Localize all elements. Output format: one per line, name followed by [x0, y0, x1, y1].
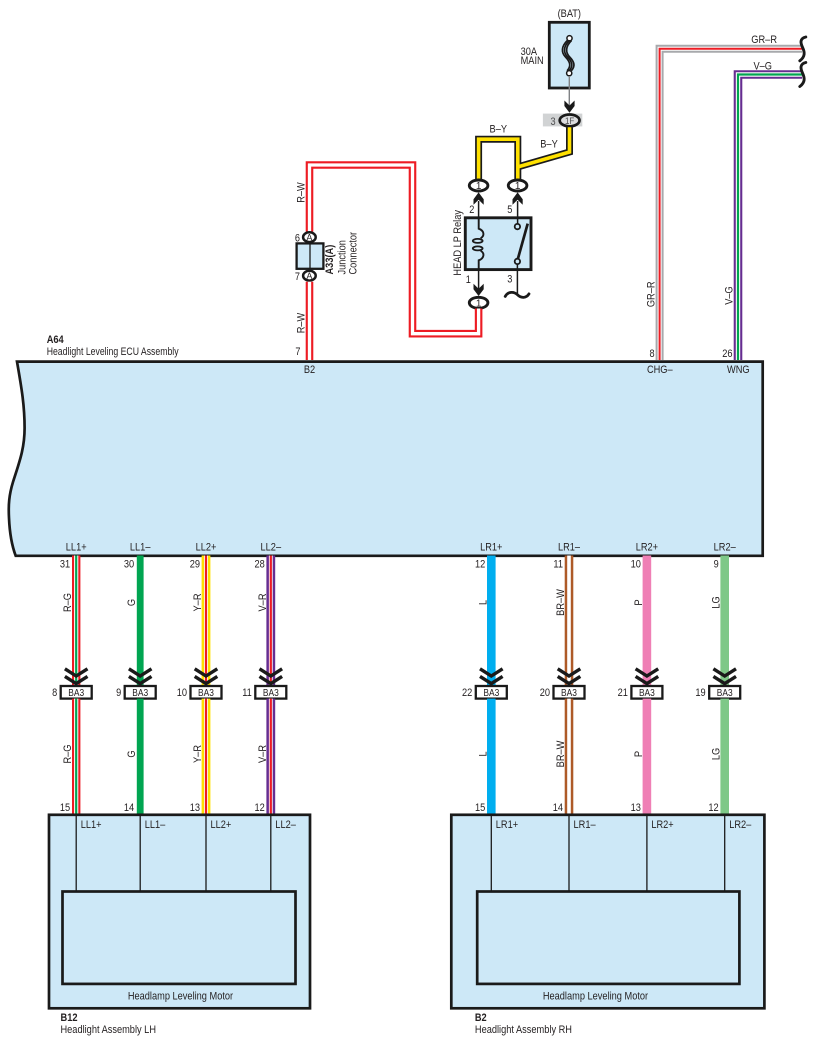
assembly pin number 15 [475, 802, 485, 814]
relay HEAD LP Relay [465, 218, 531, 270]
svg-text:BA3: BA3 [68, 688, 84, 699]
svg-text:8: 8 [52, 687, 57, 699]
svg-text:9: 9 [714, 558, 719, 570]
wire V-R (BA3 to headlight assembly) [266, 699, 275, 814]
pin number 1 (relay) [466, 274, 471, 286]
svg-text:10: 10 [177, 687, 187, 699]
junction connector A33(A) [297, 232, 324, 281]
svg-text:14: 14 [124, 802, 134, 814]
svg-text:Headlamp Leveling Motor: Headlamp Leveling Motor [543, 990, 649, 1002]
svg-text:A: A [306, 233, 312, 243]
connector BA3 pin 8 [52, 686, 92, 699]
svg-text:LR1–: LR1– [574, 819, 597, 831]
svg-text:8: 8 [650, 348, 655, 360]
svg-text:LR2+: LR2+ [636, 542, 658, 554]
assembly name B12 [61, 1012, 157, 1036]
svg-text:LL2–: LL2– [275, 819, 296, 831]
connector BA3 pin 10 [177, 686, 222, 699]
svg-text:LL1–: LL1– [145, 819, 166, 831]
terminal circle 1 (relay pin 5) [508, 180, 527, 217]
svg-text:7: 7 [295, 346, 300, 358]
assembly pin number 13 [631, 802, 641, 814]
wire R-W from A33 to ECU pin 7 [306, 282, 314, 360]
svg-text:G: G [126, 599, 138, 606]
wire label LG (upper) [711, 596, 723, 608]
wire label P (lower) [633, 751, 645, 757]
wire LG (BA3 to headlight assembly) [720, 699, 729, 814]
wire label V-G (top) [754, 61, 773, 73]
svg-text:LR1+: LR1+ [480, 542, 502, 554]
svg-text:Headlight Leveling ECU Assembl: Headlight Leveling ECU Assembly [47, 346, 179, 358]
svg-text:Headlight Assembly LH: Headlight Assembly LH [61, 1024, 157, 1036]
wire P (ECU to connector BA3) [643, 556, 652, 687]
svg-text:LR1–: LR1– [558, 542, 581, 554]
connector BA3 pin 21 [618, 686, 663, 699]
wire label R-G (lower) [62, 745, 74, 764]
svg-text:LL1+: LL1+ [66, 542, 87, 554]
wire GR-R from right edge to ECU pin 8 [660, 49, 802, 360]
svg-text:13: 13 [190, 802, 200, 814]
svg-text:19: 19 [695, 687, 705, 699]
svg-text:15: 15 [60, 802, 70, 814]
svg-text:BA3: BA3 [483, 688, 499, 699]
svg-text:WNG: WNG [727, 364, 750, 376]
svg-text:15: 15 [475, 802, 485, 814]
svg-text:9: 9 [116, 687, 121, 699]
svg-text:V–R: V–R [257, 745, 269, 763]
ECU pin 29 label LL2+ [190, 542, 217, 571]
svg-text:LL2+: LL2+ [196, 542, 217, 554]
wire label BR-W (upper) [555, 589, 567, 616]
svg-text:3: 3 [507, 274, 512, 286]
ECU pin label WNG [727, 364, 750, 376]
svg-text:LG: LG [711, 748, 723, 760]
ECU pin 9 label LR2- [714, 542, 737, 571]
wire LG (ECU to connector BA3) [720, 556, 729, 687]
svg-text:B–Y: B–Y [540, 138, 558, 150]
wire BR-W (ECU to connector BA3) [565, 556, 574, 687]
svg-text:10: 10 [631, 558, 641, 570]
svg-text:1: 1 [466, 274, 471, 286]
ECU A64 Headlight Leveling ECU Assembly [9, 362, 763, 556]
svg-text:L: L [477, 600, 489, 605]
arrow into connector BA3 (19) [713, 669, 736, 684]
svg-text:B2: B2 [304, 364, 315, 376]
svg-text:26: 26 [722, 348, 732, 360]
arrow into connector BA3 (11) [260, 669, 283, 684]
wire L (BA3 to headlight assembly) [487, 699, 496, 814]
svg-text:V–R: V–R [257, 593, 269, 611]
pin number 8 (ECU) [650, 348, 655, 360]
relay switch contacts [515, 219, 528, 269]
svg-text:R–G: R–G [62, 745, 74, 764]
ECU pin 11 label LR1- [553, 542, 580, 571]
assembly terminal line LL2- [271, 815, 297, 892]
connector 1F (pin 3) [543, 114, 582, 128]
svg-text:Y–R: Y–R [192, 593, 204, 611]
svg-text:29: 29 [190, 558, 200, 570]
arrow into connector BA3 (9) [129, 669, 152, 684]
pin number 26 (ECU) [722, 348, 732, 360]
connector BA3 pin 11 [242, 686, 286, 699]
wire label P (upper) [633, 599, 645, 605]
wire label B-Y (upper) [490, 124, 508, 136]
break squiggle V-G [800, 63, 806, 87]
svg-text:P: P [633, 599, 645, 605]
svg-text:7: 7 [295, 271, 300, 283]
svg-text:A33(A): A33(A) [324, 244, 336, 274]
wire R-G (ECU to connector BA3) [72, 556, 80, 687]
connector BA3 pin 22 [462, 686, 507, 699]
wire L (ECU to connector BA3) [487, 556, 496, 687]
assembly terminal line LL2+ [206, 815, 231, 892]
svg-text:12: 12 [475, 558, 485, 570]
svg-text:12: 12 [255, 802, 265, 814]
pin number 5 [507, 204, 512, 216]
svg-text:B12: B12 [61, 1012, 78, 1024]
svg-text:CHG–: CHG– [647, 364, 673, 376]
svg-text:B2: B2 [475, 1012, 487, 1024]
ECU pin 31 label LL1+ [60, 542, 87, 571]
wire BR-W (BA3 to headlight assembly) [565, 699, 574, 814]
svg-text:31: 31 [60, 558, 70, 570]
svg-text:14: 14 [553, 802, 563, 814]
svg-text:Headlamp Leveling Motor: Headlamp Leveling Motor [128, 990, 234, 1002]
arrow into connector BA3 (22) [480, 669, 503, 684]
svg-text:GR–R: GR–R [646, 281, 658, 307]
wire label R-G (upper) [62, 593, 74, 612]
svg-text:6: 6 [295, 232, 300, 244]
assembly pin number 12 [255, 802, 265, 814]
relay name HEAD LP Relay [452, 210, 464, 276]
arrow into connector 1F [564, 101, 574, 113]
wire B-Y from 1F to relay terminals [479, 127, 570, 179]
svg-text:LR2–: LR2– [729, 819, 752, 831]
svg-text:LR2+: LR2+ [651, 819, 673, 831]
relay coil [473, 219, 484, 269]
wire label Y-R (lower) [192, 745, 204, 763]
ECU pin 28 label LL2- [255, 542, 282, 571]
pin number 2 [469, 204, 474, 216]
svg-text:BR–W: BR–W [555, 589, 567, 616]
ECU pin label B2 [304, 364, 315, 376]
svg-text:G: G [126, 750, 138, 757]
svg-text:BA3: BA3 [263, 688, 279, 699]
terminal circle 1 (relay pin 1 output) [469, 297, 488, 309]
svg-text:R–G: R–G [62, 593, 74, 612]
wire label G (upper) [126, 599, 138, 606]
wire label V-R (lower) [257, 745, 269, 763]
wire label BR-W (lower) [555, 740, 567, 767]
fuse 30A MAIN (fusible link) [521, 22, 590, 88]
svg-text:3: 3 [551, 116, 556, 128]
svg-text:Headlight Assembly RH: Headlight Assembly RH [475, 1024, 572, 1036]
svg-text:V–G: V–G [754, 61, 773, 73]
svg-text:(BAT): (BAT) [558, 8, 581, 20]
wire V-G from right edge to ECU pin 26 [738, 75, 802, 361]
junction connector name A33(A) [324, 232, 359, 275]
wire label Y-R (upper) [192, 593, 204, 611]
svg-text:1: 1 [476, 298, 482, 309]
pin number 7 (A33) [295, 271, 300, 283]
svg-text:LG: LG [711, 596, 723, 608]
wire label G (lower) [126, 750, 138, 757]
svg-text:1: 1 [476, 181, 482, 192]
assembly terminal line LL1+ [76, 815, 101, 892]
ECU pin label CHG- [647, 364, 673, 376]
wire label R-W (lower) [296, 312, 308, 333]
svg-text:BA3: BA3 [639, 688, 655, 699]
svg-text:BA3: BA3 [132, 688, 148, 699]
headlamp leveling motor (B2) [477, 892, 739, 1003]
wire relay pin 3 with break squiggle [505, 270, 529, 297]
svg-text:21: 21 [618, 687, 628, 699]
svg-text:22: 22 [462, 687, 472, 699]
svg-text:5: 5 [507, 204, 512, 216]
assembly pin number 14 [553, 802, 563, 814]
svg-text:LL2+: LL2+ [211, 819, 232, 831]
svg-text:20: 20 [540, 687, 550, 699]
connector BA3 pin 20 [540, 686, 585, 699]
battery feed label (BAT) [558, 8, 581, 20]
svg-text:2: 2 [469, 204, 474, 216]
ECU name A64 [47, 334, 179, 358]
connector BA3 pin 9 [116, 686, 156, 699]
svg-text:Connector: Connector [348, 232, 360, 275]
svg-text:LL1–: LL1– [130, 542, 151, 554]
assembly terminal line LR2- [725, 815, 752, 892]
ECU pin 12 label LR1+ [475, 542, 502, 571]
svg-text:28: 28 [255, 558, 265, 570]
svg-text:P: P [633, 751, 645, 757]
wire label LG (lower) [711, 748, 723, 760]
svg-text:1F: 1F [565, 116, 574, 127]
wire label V-R (upper) [257, 593, 269, 611]
assembly name B2 [475, 1012, 572, 1036]
svg-text:R–W: R–W [296, 182, 308, 203]
headlamp leveling motor (B12) [63, 892, 296, 1003]
assembly pin number 15 [60, 802, 70, 814]
wire G (BA3 to headlight assembly) [137, 699, 144, 814]
wire label GR-R (vertical) [646, 281, 658, 307]
svg-text:11: 11 [242, 687, 252, 699]
svg-text:1: 1 [515, 181, 521, 192]
break squiggle GR-R [800, 37, 806, 61]
assembly terminal line LR1+ [491, 815, 518, 892]
assembly terminal line LR1- [569, 815, 596, 892]
svg-text:B–Y: B–Y [490, 124, 508, 136]
arrow into connector BA3 (10) [195, 669, 218, 684]
wire label R-W (upper) [296, 182, 308, 203]
svg-text:L: L [477, 751, 489, 756]
svg-text:LR1+: LR1+ [496, 819, 518, 831]
wire label L (lower) [477, 751, 489, 756]
ECU pin 30 label LL1- [124, 542, 151, 571]
svg-text:HEAD LP Relay: HEAD LP Relay [452, 210, 464, 276]
pin number 3 (relay) [507, 274, 512, 286]
svg-text:13: 13 [631, 802, 641, 814]
ECU pin 10 label LR2+ [631, 542, 658, 571]
wire P (BA3 to headlight assembly) [643, 699, 652, 814]
svg-text:30: 30 [124, 558, 134, 570]
wire R-G (BA3 to headlight assembly) [72, 699, 80, 814]
arrow into connector BA3 (20) [558, 669, 581, 684]
svg-text:GR–R: GR–R [751, 34, 777, 46]
pin number 6 (A33) [295, 232, 300, 244]
pin number 7 (ECU) [295, 346, 300, 358]
svg-text:BA3: BA3 [561, 688, 577, 699]
assembly pin number 12 [708, 802, 718, 814]
wire label GR-R (top) [751, 34, 777, 46]
wire Y-R (BA3 to headlight assembly) [202, 699, 211, 814]
svg-text:LL1+: LL1+ [81, 819, 102, 831]
arrow into connector BA3 (8) [65, 669, 88, 684]
headlight assembly B12 box [49, 815, 310, 1009]
svg-text:A64: A64 [47, 334, 65, 346]
svg-text:MAIN: MAIN [521, 55, 544, 67]
wire V-R (ECU to connector BA3) [266, 556, 275, 687]
svg-text:A: A [306, 271, 312, 281]
assembly pin number 13 [190, 802, 200, 814]
svg-text:BA3: BA3 [198, 688, 214, 699]
assembly terminal line LR2+ [647, 815, 674, 892]
wire Y-R (ECU to connector BA3) [202, 556, 211, 687]
svg-text:LL2–: LL2– [261, 542, 282, 554]
svg-text:12: 12 [708, 802, 718, 814]
wire label L (upper) [477, 600, 489, 605]
svg-text:BR–W: BR–W [555, 740, 567, 767]
wire R-W from relay to junction connector A33 [310, 165, 479, 334]
svg-text:LR2–: LR2– [714, 542, 737, 554]
svg-text:R–W: R–W [296, 312, 308, 333]
wire G (ECU to connector BA3) [137, 556, 144, 687]
svg-text:11: 11 [553, 558, 563, 570]
wire from fuse to connector 1F [568, 76, 570, 106]
svg-text:Y–R: Y–R [192, 745, 204, 763]
svg-text:V–G: V–G [723, 286, 735, 305]
assembly pin number 14 [124, 802, 134, 814]
arrow into connector BA3 (21) [636, 669, 659, 684]
svg-text:BA3: BA3 [717, 688, 733, 699]
connector BA3 pin 19 [695, 686, 740, 699]
wire label V-G (vertical) [723, 286, 735, 305]
wire label B-Y (right) [540, 138, 558, 150]
terminal circle 1 (relay pin 2) [469, 180, 488, 217]
wire relay pin 1 to terminal [474, 270, 484, 296]
assembly terminal line LL1- [140, 815, 166, 892]
headlight assembly B2 box [451, 815, 764, 1009]
